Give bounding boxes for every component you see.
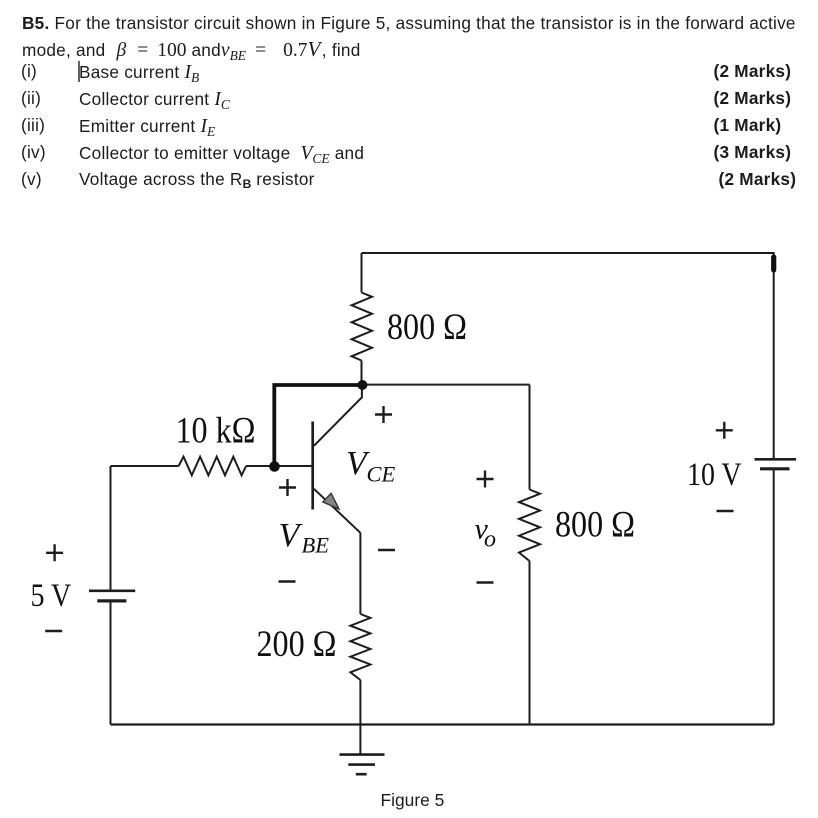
svg-text:10 kΩ: 10 kΩ [176,411,256,451]
svg-text:V: V [279,517,304,554]
svg-text:BE: BE [302,533,330,558]
svg-text:5 V: 5 V [31,577,72,613]
svg-text:10 V: 10 V [687,456,742,492]
svg-text:800 Ω: 800 Ω [387,307,467,347]
svg-text:o: o [484,527,496,553]
svg-text:200 Ω: 200 Ω [257,624,337,664]
svg-text:800 Ω: 800 Ω [555,505,635,545]
svg-text:CE: CE [367,462,396,487]
